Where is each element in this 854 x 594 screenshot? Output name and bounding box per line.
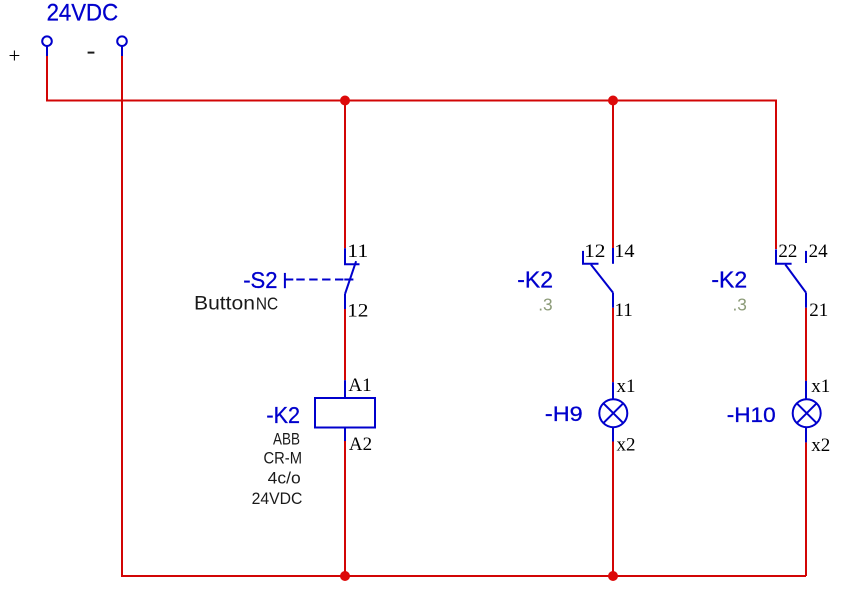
svg-text:-H9: -H9 <box>545 402 583 426</box>
svg-text:A1: A1 <box>348 375 371 396</box>
svg-text:4c/o: 4c/o <box>268 469 301 488</box>
svg-text:-K2: -K2 <box>711 267 747 293</box>
svg-text:x1: x1 <box>617 376 636 397</box>
svg-text:A2: A2 <box>349 434 372 455</box>
svg-text:x1: x1 <box>811 376 830 397</box>
svg-text:12: 12 <box>584 241 605 262</box>
svg-text:.3: .3 <box>538 295 552 315</box>
svg-text:x2: x2 <box>811 435 830 456</box>
svg-text:.3: .3 <box>733 295 747 315</box>
svg-text:12: 12 <box>347 300 368 321</box>
svg-text:-S2: -S2 <box>243 267 277 293</box>
svg-text:-K2: -K2 <box>266 402 300 428</box>
svg-text:ABB: ABB <box>273 430 300 449</box>
svg-text:22: 22 <box>778 241 797 262</box>
svg-text:24VDC: 24VDC <box>252 489 303 508</box>
svg-text:CR-M: CR-M <box>264 449 303 468</box>
svg-text:24: 24 <box>809 241 829 262</box>
svg-text:x2: x2 <box>617 435 636 456</box>
svg-text:-H10: -H10 <box>727 403 776 427</box>
svg-text:14: 14 <box>614 241 635 262</box>
svg-text:21: 21 <box>809 300 828 321</box>
svg-text:Button: Button <box>194 292 255 314</box>
svg-text:NC: NC <box>256 294 278 314</box>
svg-text:11: 11 <box>615 300 633 321</box>
svg-text:+: + <box>9 43 21 67</box>
svg-text:11: 11 <box>347 241 368 262</box>
svg-text:-K2: -K2 <box>517 267 553 293</box>
svg-text:24VDC: 24VDC <box>47 0 119 27</box>
